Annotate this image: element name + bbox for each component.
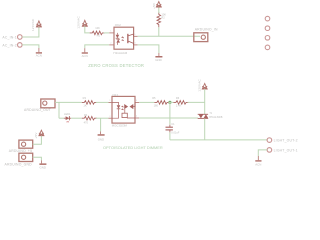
- svg-text:GND: GND: [98, 138, 104, 142]
- ground ACN (middle): [82, 48, 88, 58]
- svg-text:ARDUINO_IN: ARDUINO_IN: [195, 28, 218, 32]
- supply +5V (bottom): [34, 130, 44, 138]
- svg-text:ARDUINO_+5: ARDUINO_+5: [9, 149, 32, 153]
- pin ARDUINO_OUT: [24, 99, 55, 112]
- svg-text:ARDUINO_OUT: ARDUINO_OUT: [24, 108, 51, 112]
- ground GND (bottom section): [98, 134, 105, 141]
- pin LIGHT_OUT-2: [267, 138, 298, 143]
- supply 120VAC (left): [31, 18, 42, 31]
- svg-text:R6: R6: [176, 96, 180, 100]
- wire junction to GND: [100, 118, 102, 134]
- wire node to LED1: [59, 117, 64, 119]
- capacitor C1 0.01uF: [166, 122, 180, 135]
- supply 120VAC (right): [198, 79, 208, 92]
- wire bottom node row: [170, 139, 267, 141]
- optocoupler OK2 H11AA1: [109, 23, 137, 55]
- svg-text:AC_IN-2: AC_IN-2: [2, 43, 16, 47]
- ground GND (top section): [155, 53, 162, 62]
- wire AC_IN-2 to ACN: [22, 45, 39, 48]
- svg-text:AC_IN-1: AC_IN-1: [2, 35, 16, 39]
- junction C1 branch: [168, 101, 171, 104]
- resistor R4 470: [82, 113, 97, 125]
- svg-text:OK1: OK1: [112, 93, 118, 97]
- wire ARDUINO_OUT to node: [55, 102, 82, 118]
- svg-text:6: 6: [136, 100, 137, 102]
- svg-text:10K: 10K: [95, 26, 100, 30]
- wire 120VAC to R1: [85, 26, 90, 33]
- resistor R2 10K (vertical): [157, 12, 166, 27]
- svg-text:1: 1: [110, 31, 111, 33]
- wire R4 to OK1 pin2: [96, 117, 109, 119]
- svg-text:120VAC: 120VAC: [76, 16, 80, 29]
- pin LIGHT_OUT-1: [267, 148, 298, 153]
- svg-text:120VAC: 120VAC: [31, 18, 35, 31]
- header pads (4 unconnected): [265, 16, 270, 49]
- svg-text:C1: C1: [171, 122, 175, 126]
- svg-text:5: 5: [134, 34, 135, 36]
- label ZERO CROSS DETECTOR: [88, 63, 144, 68]
- resistor R1 10K: [90, 26, 105, 37]
- svg-text:+5V: +5V: [34, 132, 38, 139]
- wire LED1 to R4: [71, 117, 82, 119]
- wire AC_IN-1 to 120VAC: [22, 27, 39, 37]
- wire R1 to OK2 pin1: [104, 32, 110, 34]
- ground GND (bottom left): [39, 163, 46, 169]
- svg-text:ACN: ACN: [36, 54, 42, 58]
- svg-text:4: 4: [136, 116, 137, 118]
- svg-text:LED1: LED1: [64, 112, 71, 116]
- resistor R5 180: [152, 96, 170, 107]
- pin ARDUINO_+5: [9, 140, 33, 153]
- wire LIGHT_OUT-1 to ACN: [258, 150, 267, 156]
- svg-text:R5: R5: [152, 96, 156, 100]
- wire OK2 pin5 to ARDUINO_IN: [138, 35, 200, 37]
- triac T1 BTA12-600B: [198, 113, 223, 119]
- label OPTOISOLATED LIGHT DIMMER: [103, 145, 163, 150]
- svg-text:2: 2: [110, 43, 111, 45]
- svg-text:R3: R3: [83, 96, 87, 100]
- svg-text:ACN: ACN: [82, 54, 88, 58]
- wire R3 to OK1 pin1: [96, 101, 109, 103]
- optocoupler OK1 MOC3023M: [109, 93, 140, 128]
- svg-text:ACN: ACN: [255, 163, 261, 167]
- svg-text:180: 180: [154, 103, 159, 107]
- wire triac to out node: [204, 118, 206, 139]
- svg-text:OK2: OK2: [115, 23, 121, 27]
- pin AC_IN-2: [2, 43, 22, 48]
- pin ARDUINO_IN: [194, 28, 218, 42]
- svg-text:R2: R2: [161, 16, 165, 20]
- svg-text:2: 2: [109, 116, 110, 118]
- svg-text:LIGHT_OUT-2: LIGHT_OUT-2: [274, 139, 298, 143]
- svg-text:+5V: +5V: [152, 2, 156, 9]
- wire 120VAC down to triac: [204, 89, 206, 114]
- svg-text:OPTOISOLATED LIGHT DIMMER: OPTOISOLATED LIGHT DIMMER: [103, 145, 163, 150]
- wire R5 junction to R6: [169, 101, 174, 103]
- svg-text:MOC3023M: MOC3023M: [112, 124, 128, 128]
- svg-text:GND: GND: [40, 166, 46, 170]
- svg-text:BTA12-600B: BTA12-600B: [209, 116, 222, 119]
- wire C1 bottom: [169, 132, 171, 140]
- wire OK1 pin4 to triac gate: [139, 117, 198, 119]
- resistor R6 2.4K: [173, 96, 188, 107]
- LED LED1: [64, 112, 71, 124]
- wire ARDUINO_GND to GND: [33, 157, 42, 163]
- ground ACN (right): [255, 156, 261, 167]
- svg-text:ARDUINO_GND: ARDUINO_GND: [5, 162, 33, 166]
- svg-text:GND: GND: [155, 58, 161, 62]
- supply +5V (top): [152, 2, 161, 9]
- svg-text:470: 470: [84, 120, 89, 124]
- svg-text:ZERO CROSS DETECTOR: ZERO CROSS DETECTOR: [88, 63, 144, 68]
- wire R2 bottom branch: [158, 27, 160, 36]
- resistor R3 1K: [82, 96, 97, 108]
- pin AC_IN-1: [2, 35, 22, 40]
- wire OK2 pin2 to ACN: [85, 45, 110, 48]
- pin ARDUINO_GND: [5, 153, 33, 166]
- wire OK2 pin4 to GND: [138, 45, 159, 53]
- wire ARDUINO_+5 to +5V: [33, 136, 42, 145]
- svg-text:120VAC: 120VAC: [198, 79, 202, 92]
- wire R6 to 120VAC line: [188, 101, 205, 103]
- svg-text:H11AA1M: H11AA1M: [113, 51, 127, 55]
- svg-text:R4: R4: [84, 113, 88, 117]
- wire R2 to +5V: [158, 7, 160, 13]
- svg-text:1K: 1K: [83, 104, 86, 108]
- supply 120VAC (middle): [76, 16, 87, 29]
- wire OK1 pin6 to R5: [139, 101, 154, 103]
- svg-text:1: 1: [109, 100, 110, 102]
- svg-text:2.4K: 2.4K: [176, 103, 182, 107]
- wire C1 top: [169, 102, 171, 124]
- svg-text:LIGHT_OUT-1: LIGHT_OUT-1: [274, 148, 298, 152]
- svg-text:0.01uF: 0.01uF: [171, 131, 179, 135]
- ground ACN (left): [36, 48, 42, 58]
- svg-text:R1: R1: [97, 33, 101, 37]
- svg-text:4: 4: [134, 43, 135, 45]
